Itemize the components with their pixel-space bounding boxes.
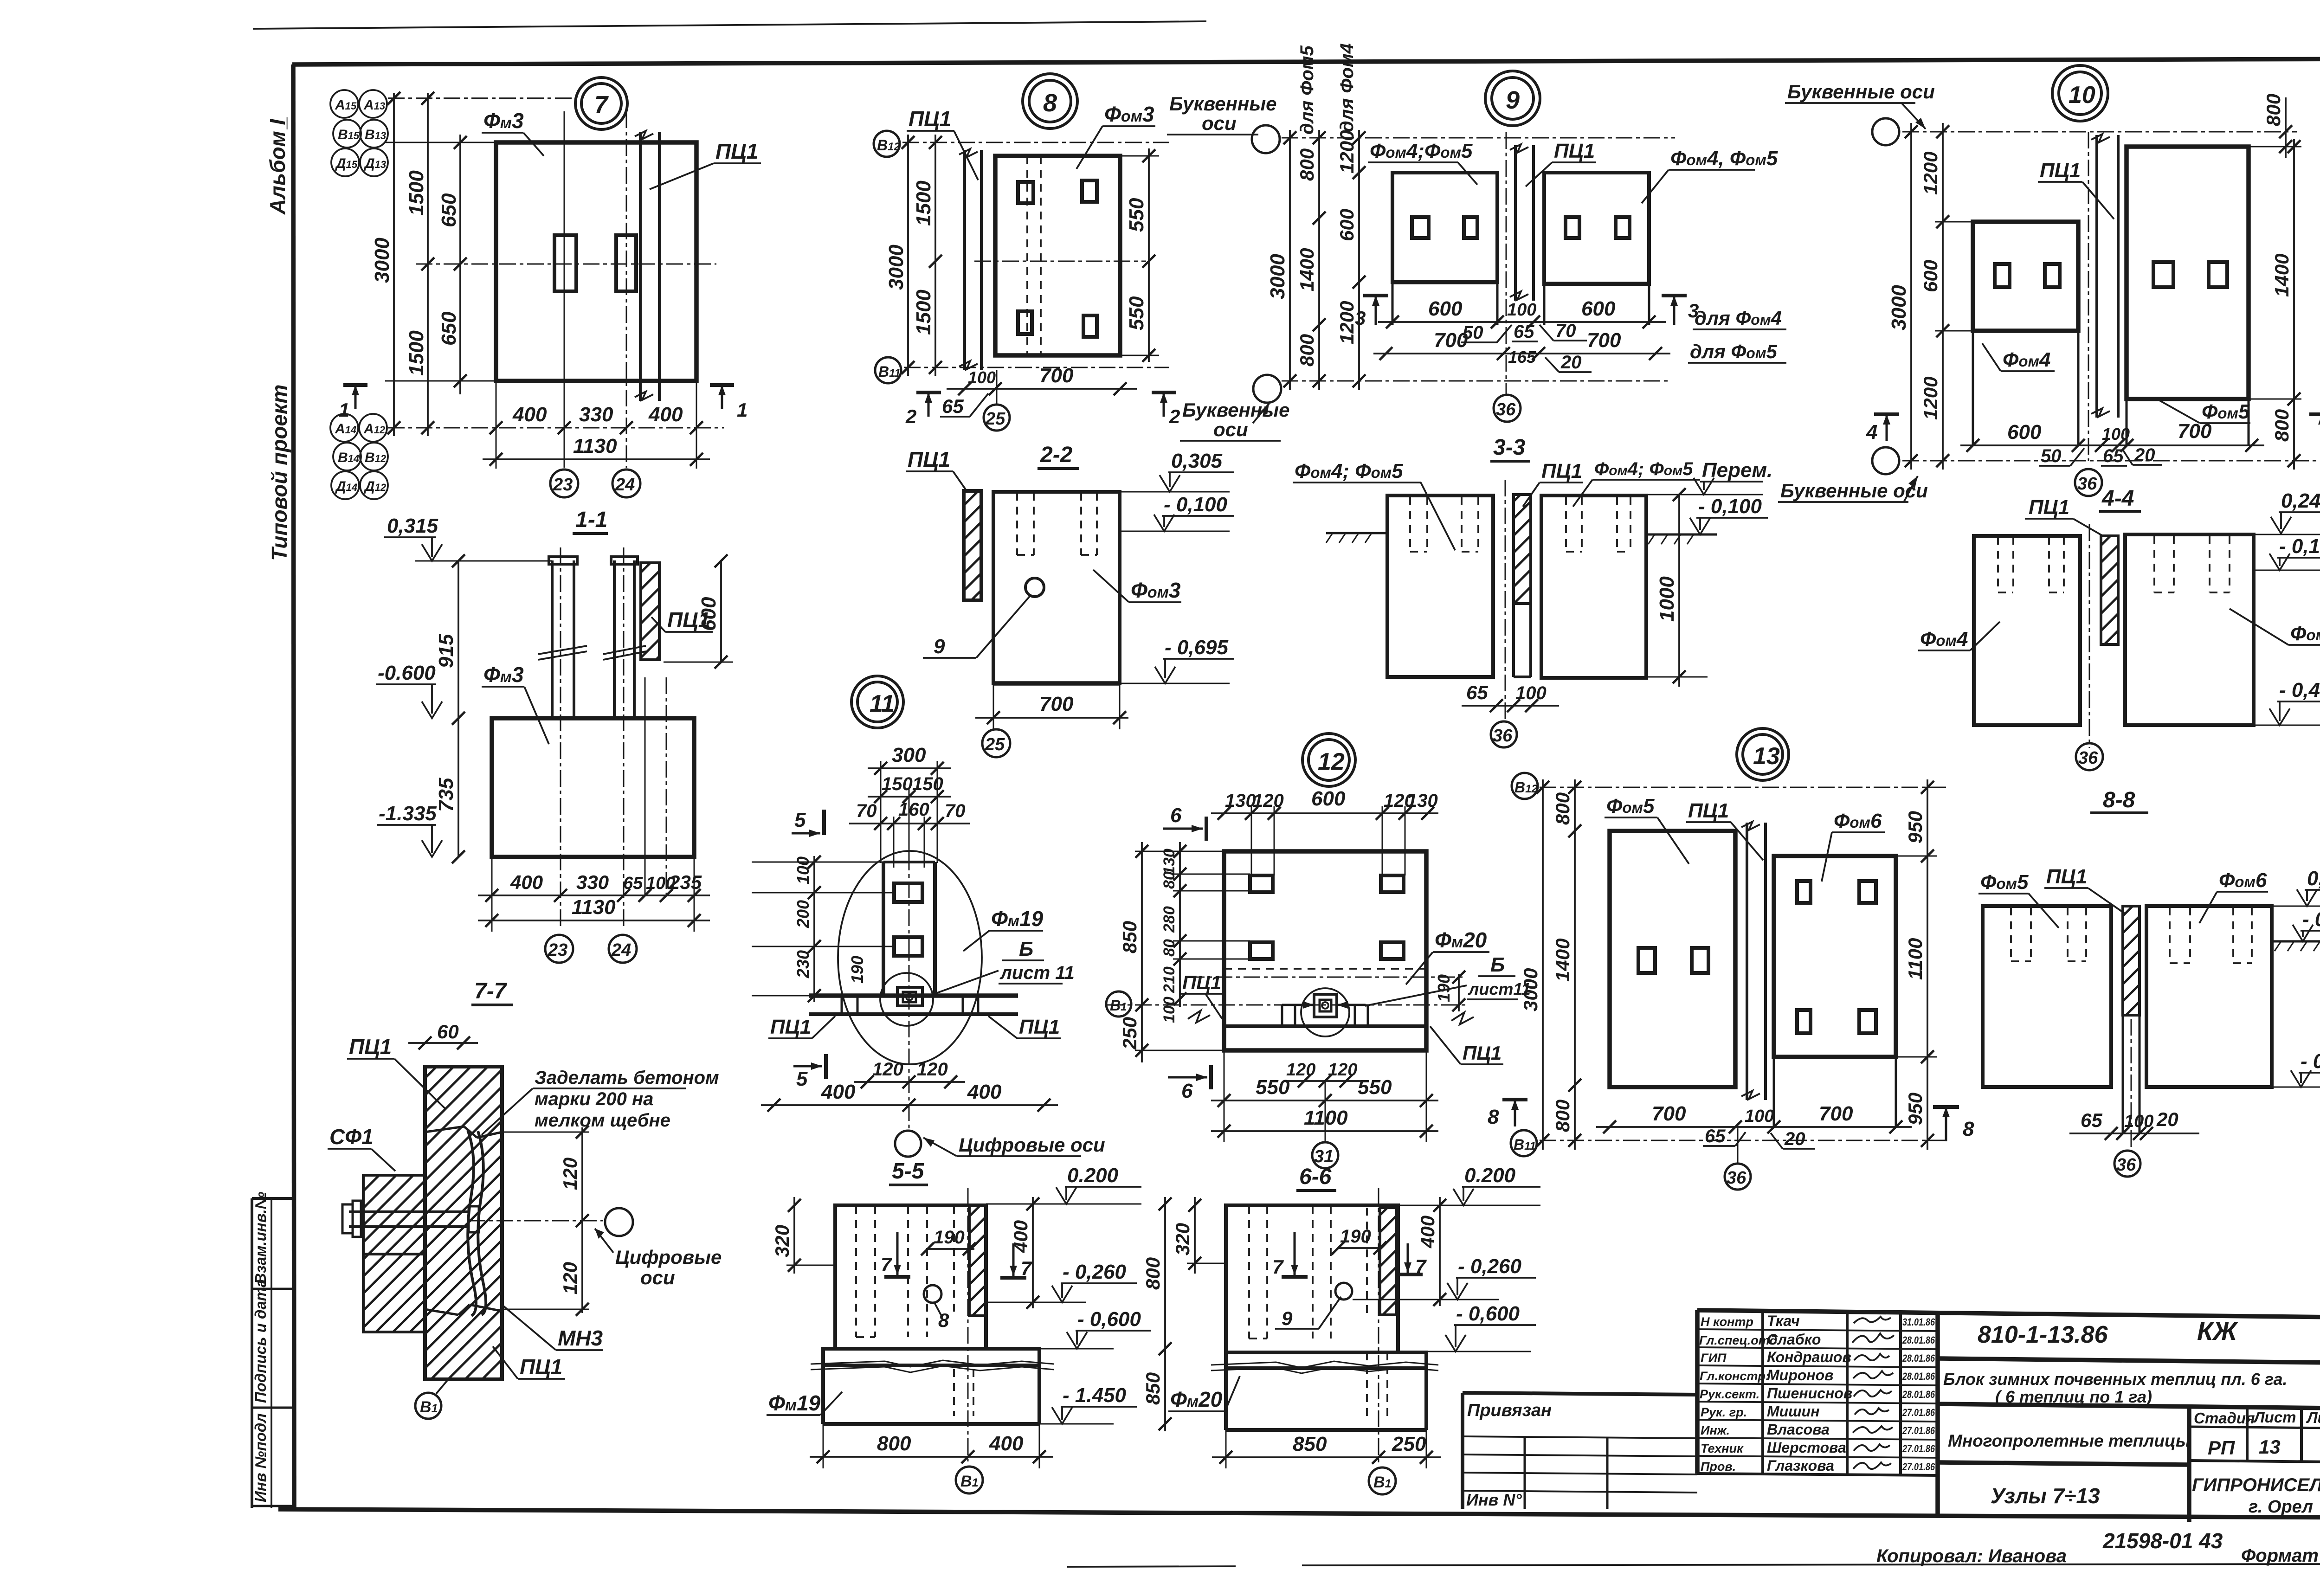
dim 3000 d9 [1289,130,1291,390]
privyazan inner h3 [1463,1473,1697,1474]
svg-text:Мишин: Мишин [1767,1403,1820,1420]
svg-text:950: 950 [1904,811,1926,843]
svg-text:для Фом5: для Фом5 [1297,45,1317,135]
dim row1 d9 600 100 600 [1378,321,1666,323]
top axis d8 [902,142,1169,143]
svg-text:320: 320 [1172,1223,1193,1255]
svg-text:Узлы 7÷13: Узлы 7÷13 [1991,1484,2100,1508]
plate small verticals [842,996,978,1014]
circle 8 mark [924,1285,941,1303]
svg-text:400: 400 [989,1432,1024,1455]
detail 7 top axis [388,97,575,99]
title big divider 2 [1938,1404,2320,1409]
svg-text:23: 23 [548,940,567,960]
grid line 24 [626,111,627,468]
svg-text:190: 190 [1434,974,1453,1002]
bottom axis d10 [1902,460,2320,462]
privyazan vertical 2 [1606,1438,1609,1509]
svg-text:Миронов: Миронов [1767,1367,1834,1384]
holes left d9 [1412,217,1429,238]
svg-text:150: 150 [882,774,913,794]
panel centerlines [644,677,646,895]
svg-text:( 6 теплиц по 1 га): ( 6 теплиц по 1 га) [1995,1387,2152,1406]
ext verticals top d12 [1251,806,1405,875]
bubble 23 [550,470,578,497]
bubble 36 d13 [1725,1164,1751,1190]
column axis vertical [909,854,910,1132]
foundation block 55 [821,1365,825,1424]
svg-text:100: 100 [1515,683,1547,703]
dashed anchors 22 [1017,493,1097,555]
svg-text:600: 600 [2007,421,2042,444]
svg-text:- 0,600: - 0,600 [1077,1308,1141,1331]
svg-text:100: 100 [1160,997,1178,1023]
svg-text:1100: 1100 [1904,938,1926,980]
svg-text:Техник: Техник [1701,1442,1744,1455]
svg-text:А13: А13 [363,97,385,113]
svg-text:Формат А2: Формат А2 [2241,1545,2320,1566]
plate end washer [469,1206,479,1232]
svg-text:Д15: Д15 [335,156,358,171]
bottom dim d8 [947,388,1137,390]
svg-text:20: 20 [2134,445,2155,465]
svg-text:400: 400 [1010,1220,1031,1253]
svg-text:В15: В15 [338,127,360,142]
svg-text:для Фом5: для Фом5 [1690,341,1778,362]
dashed anchors s33 right [1566,497,1630,552]
dashed anchors s33 left [1410,497,1478,552]
svg-text:600: 600 [1311,787,1346,810]
svg-text:Типовой проект: Типовой проект [267,385,291,561]
sheet bottom edge [1067,1566,1236,1567]
signature table column 3 [1846,1312,1849,1474]
grid line 23 [564,111,565,468]
svg-text:700: 700 [1652,1102,1686,1125]
svg-text:Фом4; Фом5: Фом4; Фом5 [1295,460,1403,483]
svg-text:850: 850 [1293,1433,1327,1455]
anchor box 2 [894,937,922,956]
PC1 hatched 44 [2101,536,2118,644]
svg-text:Стадия: Стадия [2194,1409,2255,1427]
svg-text:ПЦ1: ПЦ1 [2029,496,2069,519]
section mark 8 d13 right [1933,1105,1959,1109]
dim 1100 d12 [1211,1130,1438,1132]
svg-text:190: 190 [848,956,867,984]
signature squiggles [1852,1317,1894,1469]
axis B1 66 [1378,1188,1379,1464]
dim 800 top right d10 [2285,97,2287,158]
signature dates [1902,1316,1935,1473]
svg-text:800: 800 [2262,94,2284,126]
svg-text:600: 600 [697,597,720,631]
base plate lines [809,993,1018,998]
svg-text:- 0,260: - 0,260 [1458,1255,1522,1278]
svg-text:Блок зимних почвенных тепли: Блок зимних почвенных теплиц пл. 6 га. [1943,1370,2288,1389]
svg-text:4-4: 4-4 [2101,486,2134,511]
slab Fom4 d10 [1973,222,2078,331]
signature table bottom [1697,1474,1938,1475]
svg-text:Цифровые оси: Цифровые оси [959,1134,1105,1156]
svg-text:- 0,600: - 0,600 [1456,1302,1520,1325]
bubble 25 [984,405,1010,431]
svg-text:800: 800 [2271,409,2293,442]
svg-text:700: 700 [1587,329,1621,352]
svg-text:ПЦ1: ПЦ1 [908,447,950,471]
svg-text:7: 7 [1021,1257,1032,1279]
svg-text:120: 120 [559,1262,581,1294]
grid bubbles A15 A13 [330,90,388,176]
svg-text:20: 20 [1784,1129,1805,1149]
svg-text:ПЦ1: ПЦ1 [349,1035,392,1059]
svg-text:Н контр: Н контр [1701,1315,1753,1329]
axis B1 55 [967,1188,969,1461]
post 1 [551,560,554,718]
svg-text:950: 950 [1904,1093,1926,1125]
svg-text:Фом4, Фом5: Фом4, Фом5 [1670,147,1778,170]
svg-text:лист 11: лист 11 [999,963,1075,983]
thin ext sides fom5 d10 [2126,399,2128,445]
PC1 panel strip plan [639,132,642,401]
svg-text:130: 130 [1160,849,1178,875]
svg-text:В14: В14 [338,450,359,465]
svg-text:КЖ: КЖ [2197,1316,2238,1345]
break line 55 [811,1360,1054,1367]
left dims d10 [1910,123,1912,470]
svg-text:В11: В11 [878,363,901,380]
svg-text:700: 700 [1434,329,1468,352]
svg-text:700: 700 [2178,420,2212,443]
svg-text:Б: Б [1019,938,1033,960]
svg-text:7-7: 7-7 [474,979,508,1004]
bottom axis d9 [1282,380,1670,382]
dim 800 850 right 55 [1164,1197,1166,1431]
top axis d9 [1282,137,1675,139]
svg-text:1500: 1500 [912,180,935,226]
signature table row lines [1697,1329,1938,1331]
stage grid vertical 3 [2300,1408,2303,1463]
svg-text:2-2: 2-2 [1040,443,1073,467]
svg-text:ПЦ1: ПЦ1 [715,139,758,163]
detail 7 bubble 7 [575,77,627,129]
svg-text:Власова: Власова [1767,1421,1830,1438]
svg-text:А14: А14 [335,421,356,437]
privyazan vertical 1 [1524,1437,1526,1509]
svg-text:Инж.: Инж. [1701,1423,1730,1437]
section mark 2 right [1152,391,1176,394]
svg-text:650: 650 [438,193,460,227]
PC1 strip hatched 66 [1380,1208,1397,1315]
foundation ledge 66 [1226,1352,1426,1368]
svg-text:ПЦ1: ПЦ1 [1541,460,1582,483]
dim 1200 600 1200 d9 [1358,130,1360,390]
svg-text:Пров.: Пров. [1701,1460,1736,1474]
svg-text:1500: 1500 [405,330,428,376]
svg-text:Копировал: Иванова: Копировал: Иванова [1876,1546,2067,1566]
svg-text:4: 4 [1866,421,1877,444]
svg-text:В12: В12 [877,137,900,154]
svg-text:3000: 3000 [1520,968,1541,1011]
svg-text:ПЦ1: ПЦ1 [1182,972,1221,993]
break line 66 [1211,1361,1438,1368]
svg-text:400: 400 [1417,1216,1438,1248]
svg-text:7: 7 [594,91,609,118]
stage grid vertical 1 [2187,1407,2191,1522]
stage header underline [2189,1427,2320,1429]
svg-text:Б: Б [1490,953,1505,976]
svg-text:1200: 1200 [1920,152,1941,195]
svg-text:28.01.86: 28.01.86 [1902,1389,1935,1400]
B1 bubble d12 [1106,991,1131,1017]
svg-text:13: 13 [2259,1436,2281,1458]
svg-text:800: 800 [1552,792,1573,825]
right dims d13 [1927,779,1928,1150]
B1 bubble 66 [1369,1467,1396,1494]
svg-text:Фм20: Фм20 [1170,1387,1223,1411]
svg-text:Д13: Д13 [363,156,386,171]
column outline [882,862,885,996]
dim 800 1400 800 d13 [1574,779,1576,1150]
privyazan inner h1 [1463,1436,1697,1438]
svg-text:РП: РП [2208,1437,2235,1459]
post 2 [613,560,616,718]
svg-text:Рук. гр.: Рук. гр. [1701,1405,1747,1419]
svg-text:27.01.86: 27.01.86 [1902,1443,1935,1454]
svg-text:ГИПРОНИСЕЛЬПРОМ: ГИПРОНИСЕЛЬПРОМ [2192,1475,2320,1495]
svg-text:- 0,695: - 0,695 [2301,1050,2320,1073]
svg-text:Фом4: Фом4 [1920,628,1968,650]
svg-text:6: 6 [1181,1080,1193,1102]
break squiggle left d12 [1188,1010,1210,1023]
dim 3000 d13 [1542,779,1544,1150]
svg-text:400: 400 [821,1081,856,1103]
left inner dims d12 [1179,842,1181,1007]
extension lines left [385,142,496,143]
foundation slab Fm3 plan [496,142,696,381]
svg-text:810-1-13.86: 810-1-13.86 [1978,1321,2108,1348]
svg-text:400: 400 [510,871,543,893]
bottom axis through A14 [388,427,724,429]
bracket block lower [363,1254,425,1332]
svg-text:65: 65 [1705,1126,1726,1146]
axis circle bottom d9 [1253,375,1281,403]
B12 bubble d13 [1512,773,1538,799]
svg-text:Фом3: Фом3 [1104,102,1154,126]
svg-text:120: 120 [917,1059,948,1080]
svg-text:600: 600 [1581,297,1616,320]
dashed bolts 66 [1249,1206,1387,1416]
svg-text:280: 280 [1160,906,1178,933]
bubble 9 [1485,71,1540,126]
right dims d10 [2293,139,2295,470]
foundation block section [492,718,694,857]
anchor slot 1 [554,235,576,291]
svg-text:- 0,455: - 0,455 [2279,679,2320,701]
svg-text:СФ1: СФ1 [329,1125,374,1149]
svg-text:24: 24 [615,475,635,495]
bottom axis d8 [904,367,1169,368]
svg-text:1400: 1400 [1552,939,1573,982]
svg-text:Д12: Д12 [363,479,387,494]
bubble 10 [2052,65,2108,121]
svg-text:13: 13 [1753,743,1780,770]
small circle 9 [1025,578,1044,597]
slab Fom5 d13 [1610,831,1735,1087]
svg-text:Рук.сект.: Рук.сект. [1700,1387,1759,1401]
inner dashed line d12 [1224,968,1426,970]
bubble 8 [1023,74,1077,129]
bubble 24 s11 [609,935,637,963]
svg-text:Цифровые: Цифровые [615,1246,722,1268]
svg-text:800: 800 [1296,334,1318,367]
svg-text:Фом4;Фом5: Фом4;Фом5 [1370,140,1473,162]
centerline 24 section [623,547,625,930]
svg-text:800: 800 [877,1432,911,1455]
svg-text:7: 7 [1272,1256,1284,1278]
svg-text:В1: В1 [1373,1474,1391,1491]
svg-text:28.01.86: 28.01.86 [1902,1371,1935,1382]
dim 1000 s33 [1678,495,1680,687]
svg-text:550: 550 [1358,1076,1392,1099]
svg-text:210: 210 [1160,966,1178,993]
pedestal 55 [835,1205,986,1349]
centerline 23 section [560,547,561,930]
svg-text:200: 200 [793,900,812,928]
svg-text:Многопролетные теплицы: Многопролетные теплицы [1948,1431,2191,1450]
svg-text:915: 915 [435,634,458,668]
svg-text:1: 1 [737,399,748,421]
block Fom3 22 [993,492,1120,683]
svg-text:23: 23 [553,475,573,495]
left column inner line [271,1198,272,1508]
dashed anchors 88 left [2011,907,2086,961]
svg-text:Фм19: Фм19 [991,907,1044,931]
top dims d12 [1211,812,1438,814]
svg-text:6: 6 [1170,804,1182,827]
svg-text:100: 100 [2102,425,2130,444]
svg-text:550: 550 [1256,1076,1290,1099]
svg-text:Слабко: Слабко [1767,1331,1821,1348]
dim 65 100 s33 [1462,705,1559,707]
B11 bubble d13 [1511,1130,1537,1156]
dashed anchors 44 left [1998,537,2064,592]
svg-text:9: 9 [934,635,945,658]
stage grid vertical 2 [2246,1407,2249,1462]
svg-text:Гл.констр:: Гл.констр: [1700,1369,1770,1383]
svg-text:1-1: 1-1 [575,508,607,532]
svg-text:ПЦ1: ПЦ1 [1688,799,1729,822]
svg-text:6-6: 6-6 [1299,1165,1332,1189]
dim 150 150 [868,796,951,798]
svg-text:21598-01 43: 21598-01 43 [2102,1529,2223,1553]
ext lines left d12 [1135,851,1250,1050]
dashed anchors 88 right [2170,907,2252,963]
B1 bubble 55 [956,1467,983,1493]
slab Fom3 [995,156,1120,355]
svg-text:800: 800 [1296,148,1318,181]
svg-text:7: 7 [881,1254,892,1275]
section mark 3 left [1363,294,1388,297]
svg-text:- 0,100: - 0,100 [1164,493,1228,516]
privyazan block left [1461,1393,1464,1509]
svg-text:65: 65 [2081,1109,2102,1131]
frame left border [293,64,294,1510]
PC1 hatched s33 [1514,495,1531,604]
svg-text:3000: 3000 [885,245,908,290]
svg-text:2: 2 [1169,405,1180,427]
frame bottom border [278,1509,2320,1518]
signature row texts [1699,1313,1852,1474]
svg-text:ПЦ1: ПЦ1 [1463,1042,1502,1064]
svg-text:800: 800 [1142,1257,1164,1290]
svg-text:1130: 1130 [573,435,617,457]
svg-text:марки 200 на: марки 200 на [535,1089,653,1109]
svg-text:3000: 3000 [371,238,393,283]
slab d12 [1224,851,1426,1050]
svg-text:1100: 1100 [1304,1107,1348,1129]
bottom dim d10 [1960,444,2264,446]
svg-text:Фом4: Фом4 [2003,348,2050,371]
svg-text:36: 36 [1496,400,1516,419]
svg-text:65: 65 [1466,682,1488,703]
section mark 2 left [916,391,941,394]
svg-text:5: 5 [796,1068,808,1090]
dim 400 55 [1032,1197,1034,1308]
plate arrows d12 [1282,1004,1314,1006]
svg-text:Фм3: Фм3 [483,663,524,687]
svg-text:3: 3 [1355,307,1366,329]
dim 400 330 400 [490,421,503,434]
svg-text:65: 65 [942,395,964,417]
svg-text:Фм3: Фм3 [483,109,524,133]
svg-text:мелком щебне: мелком щебне [535,1110,670,1131]
ext lines bottom s11 [491,857,493,932]
svg-text:120: 120 [1253,791,1284,811]
svg-text:В12: В12 [365,450,387,465]
svg-text:650: 650 [438,311,460,346]
ground right s33 [1646,534,1717,536]
bubble 36 s33 [1491,721,1517,747]
ext lines bottom d12 [1224,1050,1225,1142]
circle 9 66 [1335,1283,1352,1300]
wall panel hatched [425,1067,502,1379]
svg-text:550: 550 [1125,296,1148,330]
dim 600 right [720,561,722,662]
svg-text:1400: 1400 [2271,254,2293,297]
svg-text:31: 31 [1314,1147,1334,1166]
tsifrovye osi circle [605,1208,633,1236]
left small dims [813,856,815,1002]
svg-text:250: 250 [1392,1433,1426,1455]
dim 1130 [483,458,710,460]
dim 120 120 vertical [581,1127,583,1313]
svg-text:190: 190 [1340,1226,1371,1247]
axis circle bottom d10 [1872,447,1899,474]
svg-text:3-3: 3-3 [1493,435,1526,460]
section mark 1 right [710,383,734,387]
foundation block 66 [1224,1368,1228,1430]
svg-text:10: 10 [2069,82,2095,109]
svg-text:Перем.: Перем. [1702,459,1772,482]
svg-text:Глазкова: Глазкова [1767,1457,1834,1474]
PC1 strip hatched 55 [969,1205,986,1316]
svg-text:600: 600 [1920,260,1941,292]
svg-text:230: 230 [793,950,812,978]
dim line 650 650 vertical [459,135,461,394]
slab Fom6 d13 [1774,856,1896,1057]
svg-text:50: 50 [2041,446,2062,466]
dim 550 550 right [1148,148,1150,362]
svg-text:65: 65 [1514,322,1534,342]
